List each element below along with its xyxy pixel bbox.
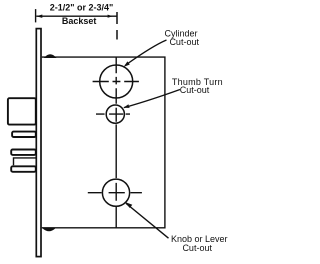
latchbolt (large) [8,98,36,124]
knob horizontal centerline [88,192,142,194]
deadlatch step piece [14,158,36,165]
cylinder horizontal centerline [93,81,139,83]
cylinder leader arrowhead [124,61,130,66]
knob leader line [126,203,169,238]
latch bar 2 [11,150,36,155]
knob leader arrowhead [125,202,133,208]
latch bar 1 [12,132,36,137]
vertical centerline through cut-outs [115,57,117,228]
right dimension arrowhead [108,15,113,18]
left extension tick [35,9,37,22]
bottom screw bump [43,228,56,231]
thumb leader arrowhead [123,104,129,108]
right extension tick (dashed centerline above case) [116,12,118,40]
left dimension arrowhead [36,15,42,18]
top screw bump [45,55,56,58]
lock case rectangle [42,57,165,228]
svg-text:Cut-out: Cut-out [169,37,199,47]
lock faceplate [36,29,41,257]
dimension line [36,15,117,17]
cylinder leader line [125,40,167,66]
svg-text:Cut-out: Cut-out [182,243,212,253]
thumb turn leader line [124,90,180,108]
thumb turn cut-out circle [106,105,124,123]
knob/lever cut-out circle [102,179,129,206]
svg-text:2-1/2" or 2-3/4": 2-1/2" or 2-3/4" [50,2,114,12]
thumb turn horizontal centerline [96,113,130,115]
svg-text:Backset: Backset [62,16,97,26]
cylinder cut-out circle [100,65,133,98]
latch bar 3 [11,166,36,172]
svg-text:Cut-out: Cut-out [180,85,210,95]
